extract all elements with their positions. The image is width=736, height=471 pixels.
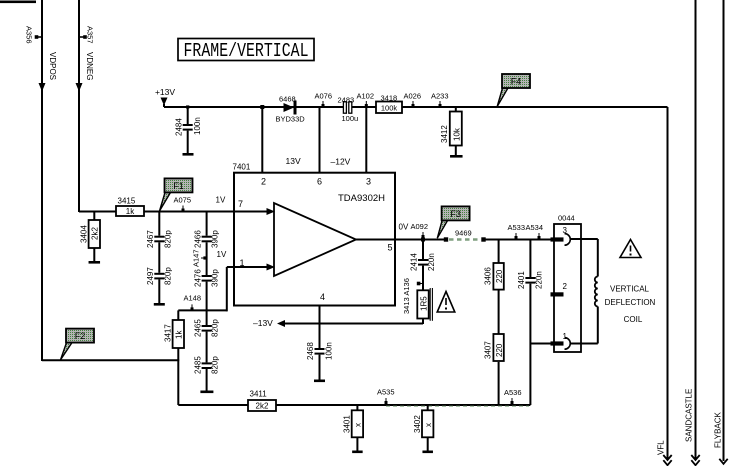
svg-text:TDA9302H: TDA9302H <box>338 193 385 204</box>
svg-text:A147: A147 <box>192 249 201 267</box>
ground (3412) <box>450 155 463 158</box>
svg-text:220n: 220n <box>535 271 544 289</box>
svg-text:A092: A092 <box>411 222 429 231</box>
svg-text:BYD33D: BYD33D <box>276 115 306 124</box>
svg-text:3402: 3402 <box>413 415 422 433</box>
svg-text:390p: 390p <box>211 230 220 248</box>
svg-text:220n: 220n <box>427 253 436 271</box>
wire 3407 to bottom rail <box>498 362 500 405</box>
arrow VFL <box>663 455 671 460</box>
resistor 3407 220 <box>498 290 500 334</box>
ground (3404) <box>89 261 101 264</box>
svg-text:3415: 3415 <box>118 197 136 206</box>
svg-text:2401: 2401 <box>517 271 526 289</box>
wire VDNEG vertical <box>78 0 80 212</box>
svg-text:3404: 3404 <box>80 225 89 243</box>
svg-text:220: 220 <box>495 343 504 357</box>
warning triangle (coil) <box>620 240 641 258</box>
svg-text:F1: F1 <box>173 181 184 191</box>
capacitor 2485 820p <box>202 362 212 364</box>
resistor 3413 1R5 <box>417 290 428 318</box>
capacitor 2468 100n <box>315 348 325 350</box>
ground (2484) <box>183 153 194 156</box>
svg-text:A357: A357 <box>86 26 95 44</box>
svg-text:2467: 2467 <box>146 230 155 248</box>
wire -13V rail <box>284 323 423 325</box>
wire bottom feedback rail <box>178 404 530 406</box>
svg-text:0V: 0V <box>399 223 409 232</box>
wire VDPOS vertical <box>41 0 43 361</box>
callout F1 <box>160 192 171 211</box>
svg-text:2465: 2465 <box>194 319 203 337</box>
capacitor 2476 390p <box>202 275 212 277</box>
svg-text:100n: 100n <box>325 342 334 360</box>
wire SANDCASTLE <box>695 0 697 460</box>
svg-text:A534: A534 <box>526 223 544 232</box>
arrow FLYBACK <box>719 459 727 464</box>
svg-text:3406: 3406 <box>484 267 493 285</box>
svg-text:FRAME/VERTICAL: FRAME/VERTICAL <box>184 40 309 62</box>
node A026 <box>412 101 414 106</box>
node A075 <box>182 206 184 211</box>
wire VDPOS to 3417 <box>42 359 179 361</box>
svg-text:2484: 2484 <box>175 118 184 136</box>
svg-text:–12V: –12V <box>331 157 351 167</box>
capacitor 2401 220n <box>529 240 531 278</box>
resistor 3412 10k <box>455 107 457 112</box>
svg-text:820p: 820p <box>164 267 173 285</box>
resistor 3404 2k2 <box>93 212 95 221</box>
node A102 <box>365 101 367 106</box>
capacitor 2414 220n <box>422 240 424 260</box>
svg-text:7: 7 <box>238 199 243 209</box>
svg-text:100n: 100n <box>193 117 202 135</box>
svg-text:F3: F3 <box>450 209 461 219</box>
op-amp U7401 TDA9302H box <box>234 173 395 306</box>
svg-text:820p: 820p <box>211 356 220 374</box>
svg-text:F4: F4 <box>511 76 522 86</box>
svg-text:6468: 6468 <box>279 95 296 104</box>
svg-text:2485: 2485 <box>194 356 203 374</box>
ground (3402) <box>422 451 433 454</box>
svg-text:390p: 390p <box>211 269 220 287</box>
svg-text:+13V: +13V <box>155 87 175 97</box>
wire pin 4 <box>319 306 321 349</box>
svg-text:x: x <box>354 423 363 427</box>
wire output to connector <box>484 239 555 241</box>
arrow SANDCASTLE <box>691 455 699 460</box>
border fragment top-left <box>0 1 36 4</box>
wire 3417 to bottom rail <box>177 348 179 405</box>
diode 6468 BYD33D <box>284 103 295 112</box>
title box FRAME/VERTICAL <box>178 39 314 61</box>
svg-text:100u: 100u <box>342 114 359 123</box>
svg-text:A533: A533 <box>508 223 526 232</box>
arrow on VDPOS wire <box>39 83 46 92</box>
svg-text:3: 3 <box>366 177 371 187</box>
wire to pin 3 <box>365 107 367 173</box>
svg-text:–13V: –13V <box>253 318 273 328</box>
svg-text:1k: 1k <box>175 330 184 339</box>
svg-text:SANDCASTLE: SANDCASTLE <box>685 389 694 442</box>
svg-text:2468: 2468 <box>306 342 315 360</box>
resistor 3402 x <box>427 405 429 410</box>
svg-text:1V: 1V <box>217 250 227 259</box>
svg-text:3411: 3411 <box>250 390 268 399</box>
node A233 <box>439 101 441 106</box>
wire A148 to pin 1 <box>178 309 227 311</box>
svg-text:2: 2 <box>261 177 266 187</box>
svg-text:3413 A136: 3413 A136 <box>402 278 411 314</box>
svg-text:1R5: 1R5 <box>420 296 429 311</box>
svg-text:VERTICAL: VERTICAL <box>610 285 650 294</box>
capacitor 2467 820p <box>158 212 160 236</box>
resistor 3401 x <box>356 405 358 410</box>
svg-text:F2: F2 <box>75 331 86 341</box>
svg-text:DEFLECTION: DEFLECTION <box>605 298 656 307</box>
svg-text:7401: 7401 <box>233 163 251 172</box>
svg-text:820p: 820p <box>164 230 173 248</box>
svg-text:FLYBACK: FLYBACK <box>714 411 723 448</box>
svg-text:3417: 3417 <box>164 324 173 342</box>
capacitor 2483 100u <box>343 102 346 113</box>
node A356 <box>37 36 43 38</box>
wire +13V rail <box>164 106 346 108</box>
svg-text:2476: 2476 <box>194 269 203 287</box>
svg-text:220: 220 <box>495 269 504 283</box>
svg-text:10k: 10k <box>453 127 462 141</box>
ground (2468) <box>314 380 325 383</box>
wire to pin 2 <box>260 105 264 109</box>
svg-text:x: x <box>424 423 433 427</box>
resistor 3417 1k <box>177 310 179 320</box>
wire link 9469 (dashed) <box>444 237 448 241</box>
warning triangle (3413) <box>437 292 455 313</box>
svg-text:VFL: VFL <box>657 440 666 455</box>
svg-text:9469: 9469 <box>455 229 472 238</box>
svg-text:1: 1 <box>563 332 568 341</box>
callout F4 <box>497 88 508 107</box>
node A357 <box>79 36 85 38</box>
svg-text:COIL: COIL <box>624 315 643 324</box>
capacitor 2465 820p <box>202 325 212 327</box>
svg-text:100k: 100k <box>381 104 398 113</box>
svg-text:3412: 3412 <box>440 125 449 143</box>
svg-text:1V: 1V <box>216 196 226 205</box>
arrow on VDNEG wire <box>76 83 83 92</box>
ground (3401) <box>352 451 363 454</box>
svg-text:2497: 2497 <box>146 267 155 285</box>
svg-text:4: 4 <box>320 292 325 302</box>
svg-text:A102: A102 <box>357 92 375 101</box>
svg-text:A075: A075 <box>174 196 192 205</box>
svg-text:2414: 2414 <box>410 253 419 271</box>
callout F2 <box>61 343 73 360</box>
resistor 3406 220 <box>498 240 500 264</box>
svg-text:A536: A536 <box>504 388 522 397</box>
svg-text:A076: A076 <box>315 92 333 101</box>
svg-text:0044: 0044 <box>558 214 575 223</box>
node A076 <box>322 101 324 106</box>
svg-text:2: 2 <box>563 282 568 291</box>
wire VDNEG to pin 7 <box>79 211 268 213</box>
svg-text:VDNEG: VDNEG <box>85 52 94 80</box>
svg-text:A026: A026 <box>404 92 422 101</box>
wire FLYBACK <box>723 0 725 461</box>
svg-text:820p: 820p <box>211 319 220 337</box>
wire pin1 to cap node <box>530 343 551 345</box>
svg-text:3401: 3401 <box>343 415 352 433</box>
svg-text:1k: 1k <box>126 207 135 216</box>
wire to pin 6 <box>319 107 321 173</box>
svg-text:2466: 2466 <box>194 230 203 248</box>
ground (2485) <box>200 391 213 394</box>
svg-text:A148: A148 <box>184 294 202 303</box>
svg-text:A535: A535 <box>377 388 395 397</box>
svg-text:13V: 13V <box>286 156 301 166</box>
svg-text:A356: A356 <box>25 26 34 44</box>
wire VFL <box>667 107 669 460</box>
capacitor 2484 100n <box>186 105 189 108</box>
vertical deflection coil L <box>571 238 598 240</box>
svg-text:6: 6 <box>317 177 322 187</box>
svg-text:A233: A233 <box>431 92 449 101</box>
callout F3 <box>437 220 447 238</box>
svg-text:2k2: 2k2 <box>256 402 269 411</box>
svg-text:5: 5 <box>388 243 393 253</box>
ground (2497) <box>154 303 165 306</box>
capacitor 2497 820p <box>154 273 164 275</box>
svg-text:2k2: 2k2 <box>91 227 100 240</box>
svg-text:2483: 2483 <box>338 96 355 105</box>
capacitor 2466 390p <box>206 212 208 236</box>
svg-text:3407: 3407 <box>484 341 493 359</box>
svg-text:VDPOS: VDPOS <box>48 52 57 80</box>
op-amp triangle <box>274 203 356 276</box>
wire pin 5 output <box>356 239 446 241</box>
